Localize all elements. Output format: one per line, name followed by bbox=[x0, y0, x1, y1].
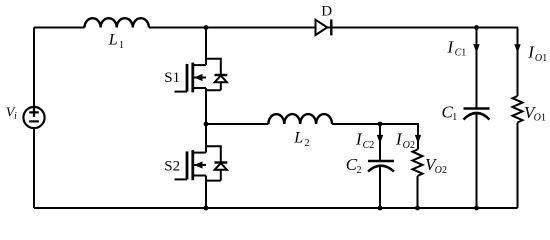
svg-text:1: 1 bbox=[542, 53, 547, 64]
svg-text:i: i bbox=[14, 111, 17, 122]
S1 drain stub bbox=[193, 64, 206, 66]
svg-text:2: 2 bbox=[369, 140, 374, 151]
svg-text:1: 1 bbox=[452, 112, 457, 123]
S2 drain wire bbox=[205, 124, 207, 153]
wire left rail upper bbox=[33, 28, 35, 108]
S2 source stub bbox=[193, 175, 206, 177]
svg-text:1: 1 bbox=[461, 48, 466, 59]
resistor VO1 bbox=[513, 96, 523, 123]
S2 body diode bbox=[206, 146, 221, 162]
svg-text:L: L bbox=[293, 130, 303, 147]
node at C1 branch on top rail bbox=[474, 25, 479, 30]
diode D bbox=[316, 3, 333, 35]
wire left rail lower bbox=[33, 128, 35, 208]
svg-text:1: 1 bbox=[119, 40, 124, 51]
svg-text:O: O bbox=[435, 165, 442, 176]
node at S2 source on bottom rail bbox=[204, 206, 209, 211]
svg-text:2: 2 bbox=[410, 140, 415, 151]
node at S1 drain on top rail bbox=[204, 25, 209, 30]
wire right rail upper bbox=[517, 28, 519, 97]
S1 body diode bbox=[206, 59, 221, 75]
wire top rail middle and right segment bbox=[149, 27, 518, 29]
S1 source wire bbox=[205, 88, 207, 124]
capacitor C2 bbox=[379, 140, 381, 161]
wire C1 to bottom rail bbox=[476, 114, 478, 208]
current arrow IO2 bbox=[415, 135, 421, 144]
svg-text:2: 2 bbox=[305, 138, 310, 149]
current arrow IO1 bbox=[514, 44, 520, 53]
wire top rail left segment bbox=[34, 27, 85, 29]
S1 arrow stub bbox=[193, 77, 206, 79]
capacitor C1 bbox=[476, 49, 478, 108]
S2 channel bar bbox=[191, 150, 194, 180]
S1 channel bar bbox=[191, 63, 194, 93]
svg-text:O: O bbox=[403, 140, 410, 151]
S1 source stub bbox=[193, 87, 206, 89]
S2 drain stub bbox=[193, 152, 206, 154]
wire from L2 to VO2 branch corner bbox=[332, 124, 418, 150]
S2 arrow stub bbox=[193, 164, 206, 166]
node C2 bottom bbox=[378, 206, 383, 211]
resistor VO2 bbox=[413, 150, 423, 176]
inductor L2 bbox=[268, 114, 332, 124]
svg-text:D: D bbox=[321, 3, 332, 19]
inductor L1 bbox=[85, 18, 149, 27]
S2 gate bar bbox=[186, 151, 189, 179]
wire from mid node to L2 bbox=[206, 123, 268, 125]
node at C2 branch top bbox=[378, 122, 383, 127]
wire bottom rail bbox=[34, 207, 518, 209]
S1 gate bar bbox=[186, 64, 189, 92]
svg-text:1: 1 bbox=[541, 113, 546, 124]
current arrow IC1 bbox=[476, 28, 478, 46]
svg-text:I: I bbox=[447, 37, 455, 56]
wire VO2 to bottom rail bbox=[417, 176, 419, 208]
wire C2 to bottom rail bbox=[379, 167, 381, 209]
transistor S2 bbox=[164, 124, 227, 208]
current arrow IC2 bbox=[379, 124, 381, 136]
svg-text:S2: S2 bbox=[164, 159, 180, 175]
svg-text:L: L bbox=[108, 32, 118, 49]
node between S1 and S2 bbox=[204, 122, 209, 127]
transistor S1 bbox=[164, 28, 227, 125]
S1 drain wire bbox=[205, 28, 207, 66]
svg-text:S1: S1 bbox=[164, 70, 180, 86]
node C1 bottom bbox=[474, 206, 479, 211]
S2 gate lead bbox=[175, 178, 188, 180]
svg-text:2: 2 bbox=[442, 165, 447, 176]
wire right rail lower bbox=[517, 123, 519, 209]
svg-text:2: 2 bbox=[357, 165, 362, 176]
node VO2 bottom bbox=[415, 206, 420, 211]
S2 source wire bbox=[205, 176, 207, 209]
svg-text:O: O bbox=[534, 113, 541, 124]
svg-text:O: O bbox=[535, 53, 542, 64]
voltage source Vi bbox=[6, 106, 45, 129]
S1 gate lead bbox=[175, 91, 188, 93]
